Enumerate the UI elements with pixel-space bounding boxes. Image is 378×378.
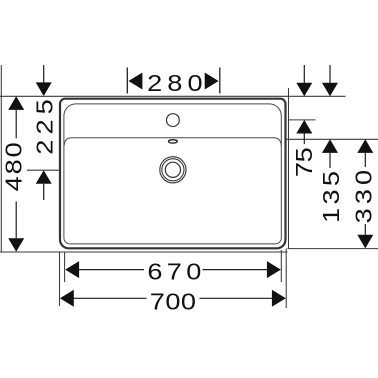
svg-text:135: 135 <box>319 168 345 223</box>
svg-text:480: 480 <box>2 140 28 191</box>
svg-text:330: 330 <box>351 166 377 223</box>
svg-text:700: 700 <box>150 289 197 315</box>
svg-text:75: 75 <box>292 148 318 177</box>
svg-text:225: 225 <box>32 94 58 155</box>
svg-text:670: 670 <box>147 260 205 286</box>
svg-text:280: 280 <box>147 71 208 97</box>
